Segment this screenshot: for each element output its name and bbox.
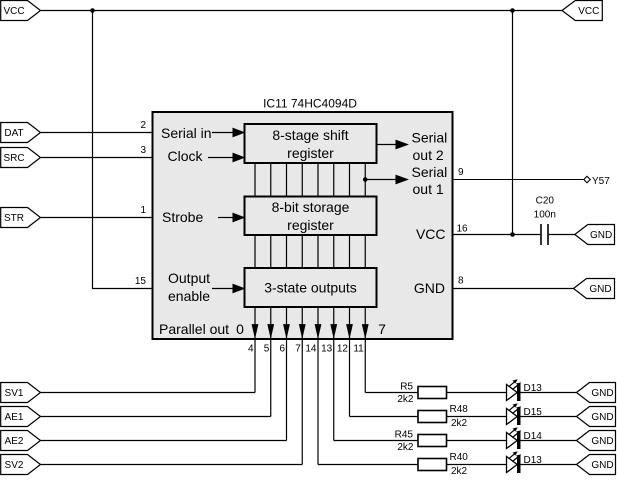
label bit 7 (378, 321, 386, 337)
resistor R40 2k2 (418, 452, 468, 477)
svg-text:16: 16 (457, 224, 469, 235)
wire parallel out pin 11 (362, 307, 368, 393)
wire parallel out pin 6 (284, 307, 290, 441)
wire D13 to GND (521, 392, 578, 394)
pin number 4 (248, 344, 254, 355)
wire pin 8 to GND (453, 288, 574, 290)
svg-text:register: register (287, 145, 334, 161)
pin number 8 (458, 276, 464, 287)
label Output enable + arrow (168, 270, 244, 304)
svg-text:Serial: Serial (412, 164, 448, 180)
label Serial in + arrow (161, 125, 244, 141)
pin number 12 (337, 344, 349, 355)
svg-text:8: 8 (458, 276, 464, 287)
svg-text:12: 12 (337, 344, 349, 355)
IC11 title label (263, 97, 357, 111)
svg-text:8-stage shift: 8-stage shift (272, 127, 348, 143)
svg-text:GND: GND (591, 388, 613, 399)
wire VCC left drop to pin 15 (93, 11, 153, 289)
svg-text:2k2: 2k2 (397, 442, 414, 453)
svg-text:out 1: out 1 (413, 181, 444, 197)
ground GND flag row D13 (577, 383, 616, 403)
svg-text:6: 6 (279, 344, 285, 355)
label bit 0 (236, 321, 244, 337)
svg-text:VCC: VCC (416, 226, 446, 242)
net tag AE2 (1, 431, 41, 451)
svg-text:14: 14 (305, 344, 317, 355)
pin number 5 (264, 344, 270, 355)
junction VCC rail right (510, 8, 515, 13)
pin number 1 (140, 205, 146, 216)
pin number 6 (279, 344, 285, 355)
svg-text:2k2: 2k2 (451, 418, 468, 429)
net tag AE1 (1, 407, 41, 427)
wire parallel out pin 4 (252, 307, 258, 393)
block 8-stage shift register (245, 124, 377, 163)
wire DAT to pin 2 (41, 132, 153, 134)
svg-text:DAT: DAT (4, 128, 23, 139)
wire R45 to D14 (447, 440, 507, 442)
svg-text:7: 7 (378, 321, 386, 337)
ground GND flag pin 8 (574, 279, 615, 299)
capacitor C20 100n (534, 196, 556, 246)
net tag SRC (1, 148, 41, 168)
wire VCC top rail (41, 10, 563, 12)
svg-text:SV1: SV1 (5, 388, 24, 399)
svg-text:Output: Output (168, 270, 210, 286)
net tag STR (1, 208, 41, 228)
resistor R48 2k2 (418, 404, 468, 429)
svg-text:GND: GND (589, 284, 611, 295)
svg-text:2k2: 2k2 (451, 466, 468, 477)
svg-text:2k2: 2k2 (397, 394, 414, 405)
LED D13 (507, 452, 543, 473)
pin number 14 (305, 344, 317, 355)
svg-text:R45: R45 (395, 430, 414, 441)
svg-text:out 2: out 2 (413, 147, 444, 163)
LED D15 (507, 404, 543, 425)
resistor R45 2k2 (395, 430, 447, 454)
net tag SV2 (1, 455, 41, 475)
wire R5 to D13 (447, 392, 507, 394)
svg-text:GND: GND (591, 436, 613, 447)
wire pin column to R40 (318, 464, 418, 466)
wire parallel out pin 13 (331, 307, 337, 441)
resistor R5 2k2 (397, 382, 446, 406)
junction VCC rail left (90, 8, 95, 13)
svg-text:7: 7 (295, 344, 301, 355)
bus shift-to-storage 8 lines (255, 163, 365, 197)
svg-text:13: 13 (321, 344, 333, 355)
wire R40 to D13 (447, 464, 507, 466)
wire D13 to GND (521, 464, 578, 466)
svg-text:Serial: Serial (412, 130, 448, 146)
block 8-bit storage register (245, 197, 377, 236)
bus storage-to-3state 8 lines (255, 235, 365, 268)
ground GND flag row D14 (577, 431, 616, 451)
LED D13 (507, 380, 543, 401)
wire pin column to R45 (334, 440, 418, 442)
svg-text:8-bit storage: 8-bit storage (272, 199, 350, 215)
svg-text:C20: C20 (536, 196, 555, 207)
wire pin 16 to C20 (453, 234, 541, 236)
svg-text:4: 4 (248, 344, 254, 355)
wire AE2 (41, 440, 287, 442)
svg-text:5: 5 (264, 344, 270, 355)
svg-text:R48: R48 (450, 404, 469, 415)
svg-text:Parallel out: Parallel out (159, 321, 229, 337)
svg-text:15: 15 (135, 276, 147, 287)
svg-text:VCC: VCC (3, 6, 24, 17)
svg-text:AE1: AE1 (5, 412, 24, 423)
svg-text:3: 3 (140, 145, 146, 156)
wire pin column to R48 (350, 416, 419, 418)
svg-text:Serial in: Serial in (161, 125, 212, 141)
ground GND flag row D13 (577, 455, 616, 475)
svg-text:IC11 74HC4094D: IC11 74HC4094D (263, 97, 357, 111)
svg-text:register: register (287, 217, 334, 233)
net tag DAT (1, 123, 41, 143)
svg-text:GND: GND (591, 412, 613, 423)
svg-text:Strobe: Strobe (162, 209, 203, 225)
node Y57 (584, 176, 610, 187)
label VCC pin (416, 226, 446, 242)
svg-text:GND: GND (591, 460, 613, 471)
svg-text:SRC: SRC (3, 153, 24, 164)
block 3-state outputs (245, 268, 377, 307)
wire parallel out pin 12 (347, 307, 353, 417)
svg-text:2: 2 (140, 120, 146, 131)
ground GND flag at C20 (575, 225, 615, 245)
wire parallel out pin 7 (299, 307, 305, 465)
svg-text:R5: R5 (400, 382, 413, 393)
svg-text:11: 11 (353, 344, 364, 355)
svg-text:enable: enable (168, 288, 210, 304)
svg-text:AE2: AE2 (5, 436, 24, 447)
label Serial out 1 + arrow (365, 164, 447, 197)
pin number 13 (321, 344, 333, 355)
svg-text:GND: GND (590, 230, 612, 241)
pin number 3 (140, 145, 146, 156)
pin number 9 (458, 167, 464, 178)
wire pin column to R5 (365, 392, 418, 394)
svg-text:VCC: VCC (578, 6, 599, 17)
wire STR to pin 1 (41, 217, 153, 219)
wire SV2 (41, 464, 303, 466)
svg-text:STR: STR (4, 213, 24, 224)
wire AE1 (41, 416, 271, 418)
svg-text:100n: 100n (534, 210, 556, 221)
pin number 15 (135, 276, 147, 287)
svg-text:SV2: SV2 (5, 460, 24, 471)
svg-text:9: 9 (458, 167, 464, 178)
svg-text:0: 0 (236, 321, 244, 337)
pin number 2 (140, 120, 146, 131)
IC IC11 74HC4094D body (153, 112, 453, 339)
label Strobe + arrow (162, 209, 244, 225)
svg-text:R40: R40 (450, 452, 469, 463)
net tag SV1 (1, 383, 41, 403)
svg-text:1: 1 (140, 205, 146, 216)
svg-text:Y57: Y57 (592, 176, 610, 187)
power VCC flag right (562, 1, 602, 21)
wire R48 to D15 (447, 416, 507, 418)
ground GND flag row D15 (577, 407, 616, 427)
wire VCC right drop to pin 16 (512, 11, 514, 235)
svg-text:Clock: Clock (168, 148, 204, 164)
junction VCC at pin 16 wire (510, 232, 515, 237)
wire D15 to GND (521, 416, 578, 418)
label GND pin (414, 280, 445, 296)
wire pin 9 to Y57 (453, 179, 585, 181)
label Parallel out (159, 321, 229, 337)
power VCC flag left (1, 1, 41, 21)
LED D14 (507, 428, 543, 449)
label Serial out 2 + arrow (377, 130, 448, 164)
junction serial out 1 tap (363, 177, 368, 182)
wire SRC to pin 3 (41, 157, 153, 159)
wire SV1 (41, 392, 256, 394)
wire C20 to GND (549, 234, 576, 236)
pin number 11 (353, 344, 364, 355)
svg-text:3-state outputs: 3-state outputs (264, 280, 357, 296)
pin number 16 (457, 224, 469, 235)
pin number 7 (295, 344, 301, 355)
svg-text:GND: GND (414, 280, 445, 296)
wire D14 to GND (521, 440, 578, 442)
wire parallel out pin 5 (268, 307, 274, 417)
wire parallel out pin 14 (315, 307, 321, 465)
label Clock + arrow (168, 148, 245, 164)
